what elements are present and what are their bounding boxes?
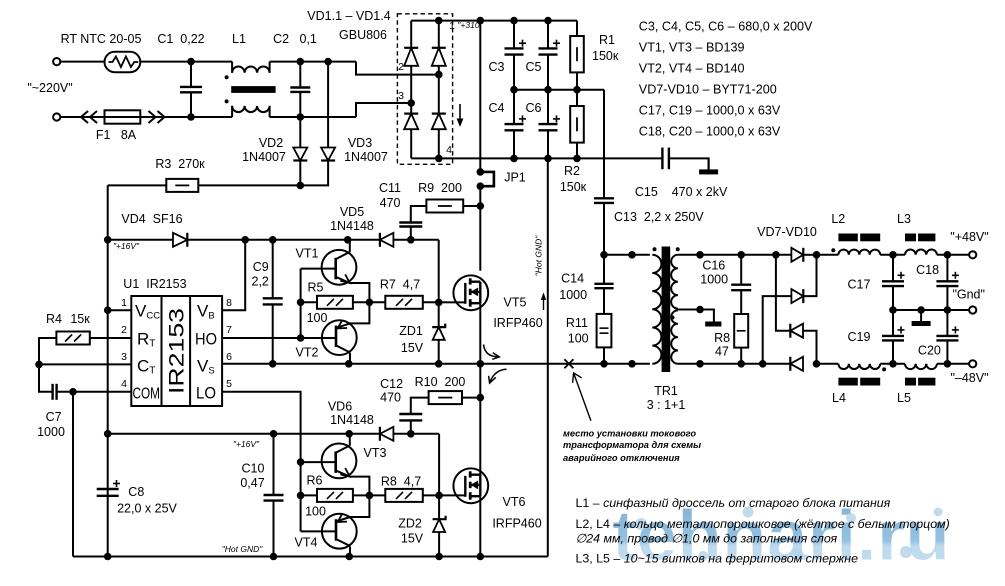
- wire R5 to node: [353, 301, 370, 303]
- svg-text:"+16V": "+16V": [113, 241, 140, 251]
- thermistor RT NTC 20-05: [105, 52, 141, 72]
- wire C16 to R8: [740, 290, 742, 314]
- junction bridge output minus: [435, 155, 443, 163]
- text note current transformer: [563, 429, 701, 464]
- junction C2 top: [297, 58, 305, 66]
- dashed box bridge GBU806: [397, 14, 452, 165]
- core L2 b: [860, 234, 880, 242]
- svg-text:U1 IR2153: U1 IR2153: [123, 277, 186, 291]
- resistor R1: [570, 36, 584, 72]
- junction C12 bottom: [407, 430, 415, 438]
- terminal +48V: [969, 251, 976, 258]
- wire VD9 anode drop: [803, 331, 817, 364]
- wire R4 left to C7: [39, 338, 56, 392]
- wire VD5 to corner: [393, 239, 438, 241]
- svg-text:C7: C7: [46, 410, 62, 424]
- junction VT1 collector: [344, 236, 352, 244]
- wire VT1 collector riser: [349, 240, 351, 252]
- zener ZD2 15V: [433, 516, 446, 532]
- wire C11 to R9: [411, 206, 427, 223]
- svg-text:4: 4: [121, 378, 127, 390]
- svg-text:HO: HO: [195, 330, 217, 349]
- wire VD8 anode: [763, 296, 792, 364]
- wire to L1 bottom: [191, 116, 232, 118]
- wire C12 to R10: [411, 398, 429, 414]
- svg-text:47: 47: [715, 345, 729, 359]
- svg-text:1: 1: [449, 20, 455, 32]
- svg-text:22,0 x 25V: 22,0 x 25V: [117, 502, 177, 516]
- svg-text:R11: R11: [566, 316, 588, 330]
- junction mid rail C4: [510, 86, 518, 94]
- junction plus node: [813, 251, 821, 259]
- svg-text:TR1: TR1: [654, 384, 678, 398]
- svg-text:0,47: 0,47: [240, 476, 264, 490]
- core L4 a: [838, 378, 857, 386]
- wire hot gnd rail: [73, 556, 548, 558]
- wire C17 top lead: [892, 255, 894, 281]
- svg-text:C9: C9: [253, 260, 269, 274]
- diode VD7: [791, 248, 803, 262]
- wire to bridge pin2: [356, 62, 439, 75]
- wire L2 to L3: [880, 254, 905, 256]
- svg-text:GBU806: GBU806: [339, 28, 387, 42]
- wire bridge right mid2: [438, 75, 440, 114]
- diode VD6: [380, 427, 394, 441]
- svg-text:C8: C8: [128, 485, 144, 499]
- svg-text:VD6: VD6: [328, 400, 352, 414]
- junction C1 top: [187, 58, 195, 66]
- svg-text:2: 2: [121, 324, 127, 336]
- junction bridge output plus: [435, 17, 443, 25]
- svg-text:VT6: VT6: [503, 495, 526, 509]
- svg-text:ZD1: ZD1: [399, 324, 423, 338]
- wire C6 top lead: [547, 90, 549, 124]
- svg-text:R2: R2: [564, 164, 580, 178]
- junction VD2 VD3 cathodes: [297, 182, 305, 190]
- text block component values: [639, 20, 813, 139]
- svg-text:VT5: VT5: [504, 296, 527, 310]
- junction VT5 source rail: [477, 360, 485, 368]
- inductor L4: [838, 364, 880, 369]
- capacitor C18: [936, 272, 959, 286]
- wire R1 bottom lead: [576, 72, 578, 89]
- svg-text:LO: LO: [196, 384, 216, 403]
- wire AC line top: [60, 61, 191, 63]
- chevrons around fuse F1: [81, 111, 165, 123]
- wire ZD1 to rail: [438, 340, 440, 364]
- svg-text:C13 2,2 x 250V: C13 2,2 x 250V: [614, 210, 704, 224]
- arrow current direction down: [457, 104, 464, 127]
- svg-text:150к: 150к: [560, 180, 587, 194]
- wire bridge bottom: [411, 157, 439, 159]
- diode VD3 1N4007: [321, 148, 335, 161]
- svg-text:R7 4,7: R7 4,7: [380, 278, 420, 292]
- wire VD3 to VD2 junction: [300, 161, 328, 186]
- junction C17 top: [889, 251, 897, 259]
- junction Ct node: [35, 361, 43, 369]
- wire C18 bottom lead: [946, 286, 948, 310]
- wire primary top: [604, 254, 650, 256]
- wire C12 bottom lead: [410, 420, 412, 433]
- junction R9 right: [477, 202, 485, 210]
- wire L1 top exit: [269, 62, 271, 73]
- svg-text:C16: C16: [702, 259, 725, 273]
- resistor R3: [166, 179, 198, 192]
- svg-text:C12: C12: [380, 377, 403, 391]
- junction JP1 bottom: [477, 182, 485, 190]
- capacitor C4: [505, 115, 527, 130]
- wire to L2: [817, 254, 839, 256]
- junction C11 bottom: [407, 236, 415, 244]
- svg-text:3 : 1+1: 3 : 1+1: [647, 398, 686, 412]
- phase dot secondary bottom: [671, 316, 675, 320]
- core of TR1: [662, 247, 671, 373]
- svg-text:C15 470 x 2kV: C15 470 x 2kV: [635, 185, 728, 199]
- svg-text:VT1, VT3 – BD139: VT1, VT3 – BD139: [639, 41, 745, 55]
- svg-text:1N4007: 1N4007: [242, 150, 286, 164]
- capacitor C14: [594, 284, 613, 288]
- svg-text:"+48V": "+48V": [950, 230, 988, 244]
- wire R2 bottom lead: [576, 143, 578, 159]
- wire C4 top lead: [513, 90, 515, 124]
- svg-text:VT2: VT2: [296, 346, 319, 360]
- wire pin3 Ct: [39, 363, 131, 365]
- diode VD1.3: [404, 114, 418, 130]
- junction Vcc pin1: [104, 306, 112, 314]
- capacitor C11: [399, 223, 422, 227]
- junction C18 top: [944, 251, 952, 259]
- svg-text:6: 6: [226, 351, 232, 363]
- junction Gnd sym: [917, 306, 925, 314]
- svg-text:VT2, VT4 – BD140: VT2, VT4 – BD140: [639, 62, 745, 76]
- junction R11 rail: [600, 360, 608, 368]
- wire to ZD2 column top: [438, 434, 440, 496]
- junction tap mark: [696, 306, 704, 314]
- wire VT3 emitter to node: [350, 477, 370, 496]
- wire VD2 top lead: [299, 117, 301, 148]
- svg-text:150к: 150к: [592, 49, 619, 63]
- wire L1 top entry: [231, 62, 233, 73]
- wire R6 to node: [353, 494, 370, 496]
- wire R3 left: [108, 184, 167, 186]
- junction JP1 top: [477, 168, 485, 176]
- junction VT6 source rail: [477, 553, 485, 561]
- diode VD1.1: [404, 48, 418, 66]
- wire VT2 collector drop: [349, 353, 351, 364]
- svg-text:470: 470: [380, 391, 401, 405]
- junction VT3 collector: [345, 430, 353, 438]
- transistor VT6 IRFP460: [453, 468, 488, 503]
- diode VD10: [790, 357, 803, 371]
- svg-text:1N4148: 1N4148: [330, 413, 374, 427]
- wire base column upper: [300, 269, 302, 338]
- transformer TR1 primary: [652, 255, 661, 364]
- svg-text:1N4148: 1N4148: [330, 219, 374, 233]
- transistor VT3: [322, 444, 357, 479]
- phase dot secondary top: [676, 247, 680, 251]
- svg-text:C17: C17: [848, 278, 871, 292]
- wire C1 bottom lead: [190, 92, 192, 117]
- wire C11 bottom lead: [410, 227, 412, 240]
- svg-text:VD3: VD3: [348, 136, 372, 150]
- junction primary top mark: [628, 251, 636, 259]
- resistor R8 snubber: [734, 314, 748, 348]
- svg-text:R10 200: R10 200: [415, 375, 466, 389]
- resistor R7: [385, 296, 423, 309]
- junction bridge pin2: [435, 71, 443, 79]
- svg-text:C3: C3: [489, 60, 505, 74]
- svg-text:1N4007: 1N4007: [344, 150, 388, 164]
- svg-text:C11: C11: [379, 181, 401, 195]
- wire node to R8: [369, 494, 385, 496]
- svg-text:IRFP460: IRFP460: [493, 316, 542, 330]
- svg-text:C17, C19 – 1000,0 x 63V: C17, C19 – 1000,0 x 63V: [639, 104, 781, 118]
- svg-text:VT3: VT3: [364, 446, 387, 460]
- junction Gnd C17: [889, 306, 897, 314]
- junction C13 C14 primary: [600, 251, 608, 259]
- junction HO bases: [297, 334, 305, 342]
- wire Gnd rail: [893, 309, 969, 311]
- svg-text:3: 3: [398, 90, 404, 102]
- junction R8 rail: [737, 360, 745, 368]
- svg-text:8: 8: [226, 297, 232, 309]
- core of L1: [231, 86, 275, 93]
- wire hot gnd vertical: [547, 158, 549, 556]
- svg-text:1000: 1000: [700, 272, 728, 286]
- transformer TR1 secondary lower: [671, 310, 678, 363]
- diode VD1.4: [432, 114, 446, 130]
- wire secondary bottom out: [678, 363, 790, 365]
- fuse F1: [105, 110, 141, 123]
- phase dot L1 top: [225, 75, 229, 79]
- diode VD9: [790, 324, 803, 338]
- svg-text:COM: COM: [133, 386, 161, 403]
- mark X current transformer place: [564, 359, 573, 368]
- junction VD9 riser top: [772, 251, 780, 259]
- svg-text:место установки токового: место установки токового: [563, 429, 696, 439]
- wire C5 top lead: [547, 21, 549, 49]
- wire node to R7: [369, 301, 385, 303]
- wire to L4: [817, 363, 839, 365]
- svg-text:ZD2: ZD2: [398, 517, 422, 531]
- wire COM down to hot gnd: [72, 392, 74, 557]
- inductor L1 top winding: [232, 67, 270, 73]
- junction C7 right: [69, 388, 77, 396]
- resistor R4: [56, 332, 89, 345]
- wire C1 top lead: [190, 62, 192, 87]
- svg-text:100: 100: [305, 505, 326, 519]
- svg-text:1000: 1000: [559, 288, 587, 302]
- junction VT3 base: [297, 458, 305, 466]
- wire C19 top lead: [892, 310, 894, 336]
- svg-text:R8: R8: [714, 331, 730, 345]
- wire R3 right: [198, 184, 300, 186]
- diode VD8: [791, 289, 803, 303]
- wire R5 left lead: [301, 301, 317, 303]
- wire C7 to pin4 COM: [57, 391, 132, 393]
- inductor L5: [905, 364, 937, 369]
- wire mid divider rail: [514, 89, 604, 91]
- svg-text:C2 0,1: C2 0,1: [273, 32, 317, 46]
- capacitor C16: [731, 285, 751, 291]
- svg-text:L2, L4 – кольцо металлопорошко: L2, L4 – кольцо металлопорошковое (жёлто…: [576, 517, 950, 531]
- wire R10 right: [462, 397, 480, 399]
- svg-text:C4: C4: [489, 101, 505, 115]
- wire R7 to VT5 gate: [423, 301, 466, 303]
- junction C9 top: [269, 236, 277, 244]
- wire R8 to VT6 gate: [423, 494, 466, 496]
- junction ZD2 top: [435, 492, 443, 500]
- svg-text:C14: C14: [561, 272, 584, 286]
- wire R9 right: [463, 205, 480, 207]
- wire bridge right mid1: [438, 66, 440, 75]
- ground after C15: [699, 158, 718, 174]
- wire ZD2 to rail: [438, 532, 440, 557]
- resistor R8a: [385, 489, 423, 502]
- wire bridge top: [411, 20, 439, 22]
- wire L3 to +48V: [937, 254, 969, 256]
- wire to bridge pin3: [356, 103, 411, 117]
- svg-text:C1 0,22: C1 0,22: [157, 32, 204, 46]
- svg-text:100: 100: [307, 311, 328, 325]
- junction bus R2: [573, 155, 581, 163]
- wire L5 to -48V: [937, 363, 969, 365]
- svg-text:VD5: VD5: [340, 205, 364, 219]
- curved arrow current upper: [484, 345, 498, 357]
- wire L1 to C2 bottom: [270, 116, 301, 118]
- capacitor C1: [180, 87, 202, 92]
- svg-text:"~220V": "~220V": [27, 81, 72, 95]
- svg-text:аварийного отключения: аварийного отключения: [563, 453, 680, 463]
- junction ZD1 rail: [435, 360, 443, 368]
- svg-text:VD7-VD10: VD7-VD10: [757, 225, 817, 239]
- ground output: [912, 310, 931, 326]
- transistor VT5 IRFP460: [453, 275, 488, 310]
- wire +16V lower line: [108, 433, 380, 435]
- wire bottom AC right: [300, 116, 356, 118]
- svg-text:"Hot GND": "Hot GND": [534, 235, 544, 276]
- transformer TR1 secondary upper: [671, 255, 678, 309]
- junction ZD2 rail: [435, 553, 443, 561]
- wire VT4 collector drop: [349, 546, 351, 556]
- junction C19 bottom: [889, 360, 897, 368]
- svg-text:C20: C20: [918, 344, 941, 358]
- svg-text:C5: C5: [526, 60, 542, 74]
- junction Gnd C18: [944, 306, 952, 314]
- svg-text:C10: C10: [242, 462, 265, 476]
- resistor R2: [570, 106, 584, 143]
- wire R4 to pin2: [90, 337, 132, 339]
- wire main Vcc vertical: [107, 185, 109, 556]
- svg-text:R1: R1: [599, 33, 615, 47]
- capacitor C6: [539, 115, 561, 130]
- capacitor C5: [539, 40, 561, 55]
- wire C17 bottom lead: [892, 286, 894, 310]
- wire R11 bottom lead: [603, 347, 605, 363]
- diode VD1.2: [432, 48, 446, 66]
- junction bus C6 hot gnd: [544, 155, 552, 163]
- wire VD4 left: [108, 239, 173, 241]
- svg-text:15V: 15V: [401, 341, 424, 355]
- wire +16V upper line: [187, 239, 380, 241]
- junction primary bottom mark: [628, 360, 636, 368]
- wire +310V rail: [439, 20, 577, 22]
- svg-text:5: 5: [226, 378, 232, 390]
- wire L1 to C2 top: [270, 61, 301, 63]
- capacitor C13: [594, 198, 614, 203]
- terminal: [53, 113, 60, 120]
- wire VS midpoint rail: [222, 363, 650, 365]
- wire VD6 to corner: [393, 433, 439, 435]
- phase dot L1 bottom: [225, 99, 229, 103]
- wire C18 top lead: [946, 255, 948, 281]
- svg-text:L2: L2: [831, 212, 845, 226]
- resistor R9: [426, 200, 463, 213]
- wire C14 top lead: [603, 255, 605, 284]
- resistor R6: [317, 489, 353, 502]
- svg-text:2: 2: [398, 61, 404, 73]
- svg-text:IRFP460: IRFP460: [492, 517, 541, 531]
- wire C3 bottom lead: [513, 55, 515, 90]
- capacitor C9: [263, 298, 283, 304]
- svg-text:R4: R4: [46, 312, 62, 326]
- curved arrow current lower: [490, 369, 506, 381]
- svg-text:VD4 SF16: VD4 SF16: [121, 212, 182, 226]
- wire VT3 collector riser: [349, 434, 351, 446]
- capacitor C12: [399, 414, 422, 420]
- junction mid rail R1R2: [573, 86, 581, 94]
- svg-text:VD2: VD2: [259, 136, 283, 150]
- core L2 a: [838, 234, 857, 242]
- inductor L3: [905, 249, 937, 254]
- svg-text:15V: 15V: [401, 532, 424, 546]
- svg-text:L3, L5 – 10~15 витков на ферри: L3, L5 – 10~15 витков на ферритовом стер…: [576, 551, 859, 565]
- wire top AC to VD3 node: [300, 61, 328, 63]
- wire pin5 LO to bases: [222, 392, 301, 532]
- svg-text:F1 8A: F1 8A: [96, 128, 137, 142]
- capacitor C7: [53, 384, 57, 400]
- wire L1 bottom exit: [269, 106, 271, 117]
- svg-text:15к: 15к: [70, 312, 90, 326]
- wire pin8 VB riser: [222, 240, 245, 310]
- capacitor C2: [290, 88, 310, 92]
- wire C9 top lead: [272, 240, 274, 298]
- junction VD8 rail: [759, 360, 767, 368]
- junction C9 rail: [269, 360, 277, 368]
- wire VT4 emitter to node: [350, 495, 370, 517]
- jumper JP1: [480, 172, 494, 186]
- resistor R10: [429, 391, 462, 404]
- text block inductor notes: [576, 496, 950, 565]
- ground center tap: [705, 322, 721, 327]
- op-amp U1 IR2153 body: [131, 296, 222, 406]
- svg-text:C18, C20 – 1000,0 x 63V: C18, C20 – 1000,0 x 63V: [639, 125, 781, 139]
- capacitor C8: [97, 480, 120, 496]
- svg-text:L5: L5: [897, 391, 911, 405]
- arrow up hot gnd: [541, 293, 546, 311]
- transistor VT1: [322, 250, 357, 285]
- svg-text:100: 100: [568, 332, 589, 346]
- svg-text:"Gnd": "Gnd": [952, 288, 985, 302]
- core L3 a: [905, 234, 916, 242]
- svg-text:3: 3: [121, 351, 127, 363]
- wire VD2 bottom lead: [299, 161, 301, 186]
- svg-text:L1: L1: [232, 32, 246, 46]
- svg-text:L1 – синфазный дроссель от ста: L1 – синфазный дроссель от старого блока…: [576, 496, 891, 510]
- capacitor C3: [505, 40, 527, 55]
- wire R8 bottom lead: [740, 348, 742, 364]
- wire VD7 out: [803, 254, 816, 256]
